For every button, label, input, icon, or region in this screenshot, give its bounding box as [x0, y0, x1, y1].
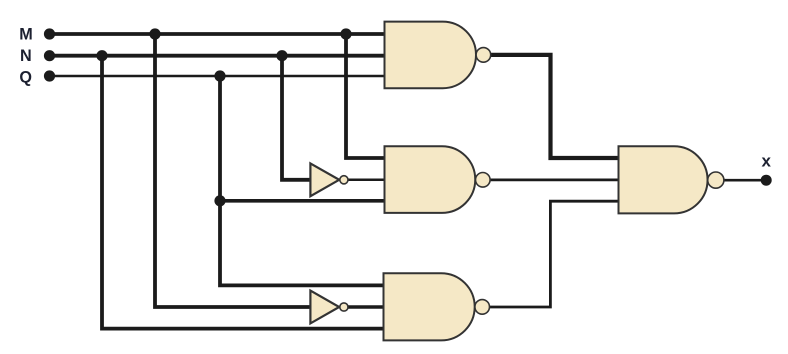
nand gate U2 (middle) [385, 146, 491, 213]
wire inverter U6 output to bottom NAND input B [348, 305, 385, 308]
wire node J down to bottom NAND input A [220, 201, 385, 286]
svg-text:M: M [19, 25, 32, 43]
U3 output bubble [475, 300, 490, 315]
wire from N junction down to bottom NAND input C [102, 56, 385, 329]
nand gate U3 (bottom) [384, 273, 490, 340]
svg-text:N: N [20, 47, 32, 65]
nand gate U1 (top) [385, 22, 491, 89]
inverter U5 (middle row) [310, 163, 348, 196]
U5 output bubble [340, 176, 348, 184]
junction node J at (220,200.8) [214, 195, 225, 206]
input terminal dot Q [44, 70, 55, 81]
junction on M line at x=155 [149, 28, 160, 39]
wire top NAND output to final NAND input A [491, 55, 619, 158]
wire bottom NAND output to final NAND input C [490, 201, 619, 307]
U4 output bubble [708, 172, 724, 188]
svg-text:Q: Q [19, 69, 32, 87]
junction on N line at x=102 [96, 50, 107, 61]
inverter U6 (bottom row) [310, 291, 348, 324]
junction on N line at x=282 [276, 50, 287, 61]
nand gate U4 (final, output x) [619, 146, 724, 213]
wire from Q junction down to node J [218, 76, 222, 201]
wire M horizontal line [49, 32, 385, 36]
junction on M line at x=346 [340, 28, 351, 39]
wire from M junction down to inverter U6 input [155, 34, 311, 307]
svg-text:x: x [761, 152, 771, 171]
wire node J right to middle NAND input C [220, 199, 385, 203]
wire Q horizontal line [49, 75, 385, 78]
junction on Q line at x=220 [214, 70, 225, 81]
output terminal dot x [761, 175, 772, 186]
wire final NAND output to terminal x [724, 179, 767, 182]
U2 output bubble [476, 173, 491, 188]
wire N horizontal line [49, 54, 385, 58]
wire inverter U5 output to middle NAND input B [348, 179, 385, 182]
wire middle NAND output to final NAND input B [490, 178, 619, 181]
U6 output bubble [340, 303, 348, 311]
wire from M junction down to middle NAND input A [346, 34, 385, 158]
wire from N junction down to inverter U5 input [282, 56, 311, 180]
U1 output bubble [476, 48, 491, 63]
input terminal dot M [44, 28, 55, 39]
input terminal dot N [44, 50, 55, 61]
